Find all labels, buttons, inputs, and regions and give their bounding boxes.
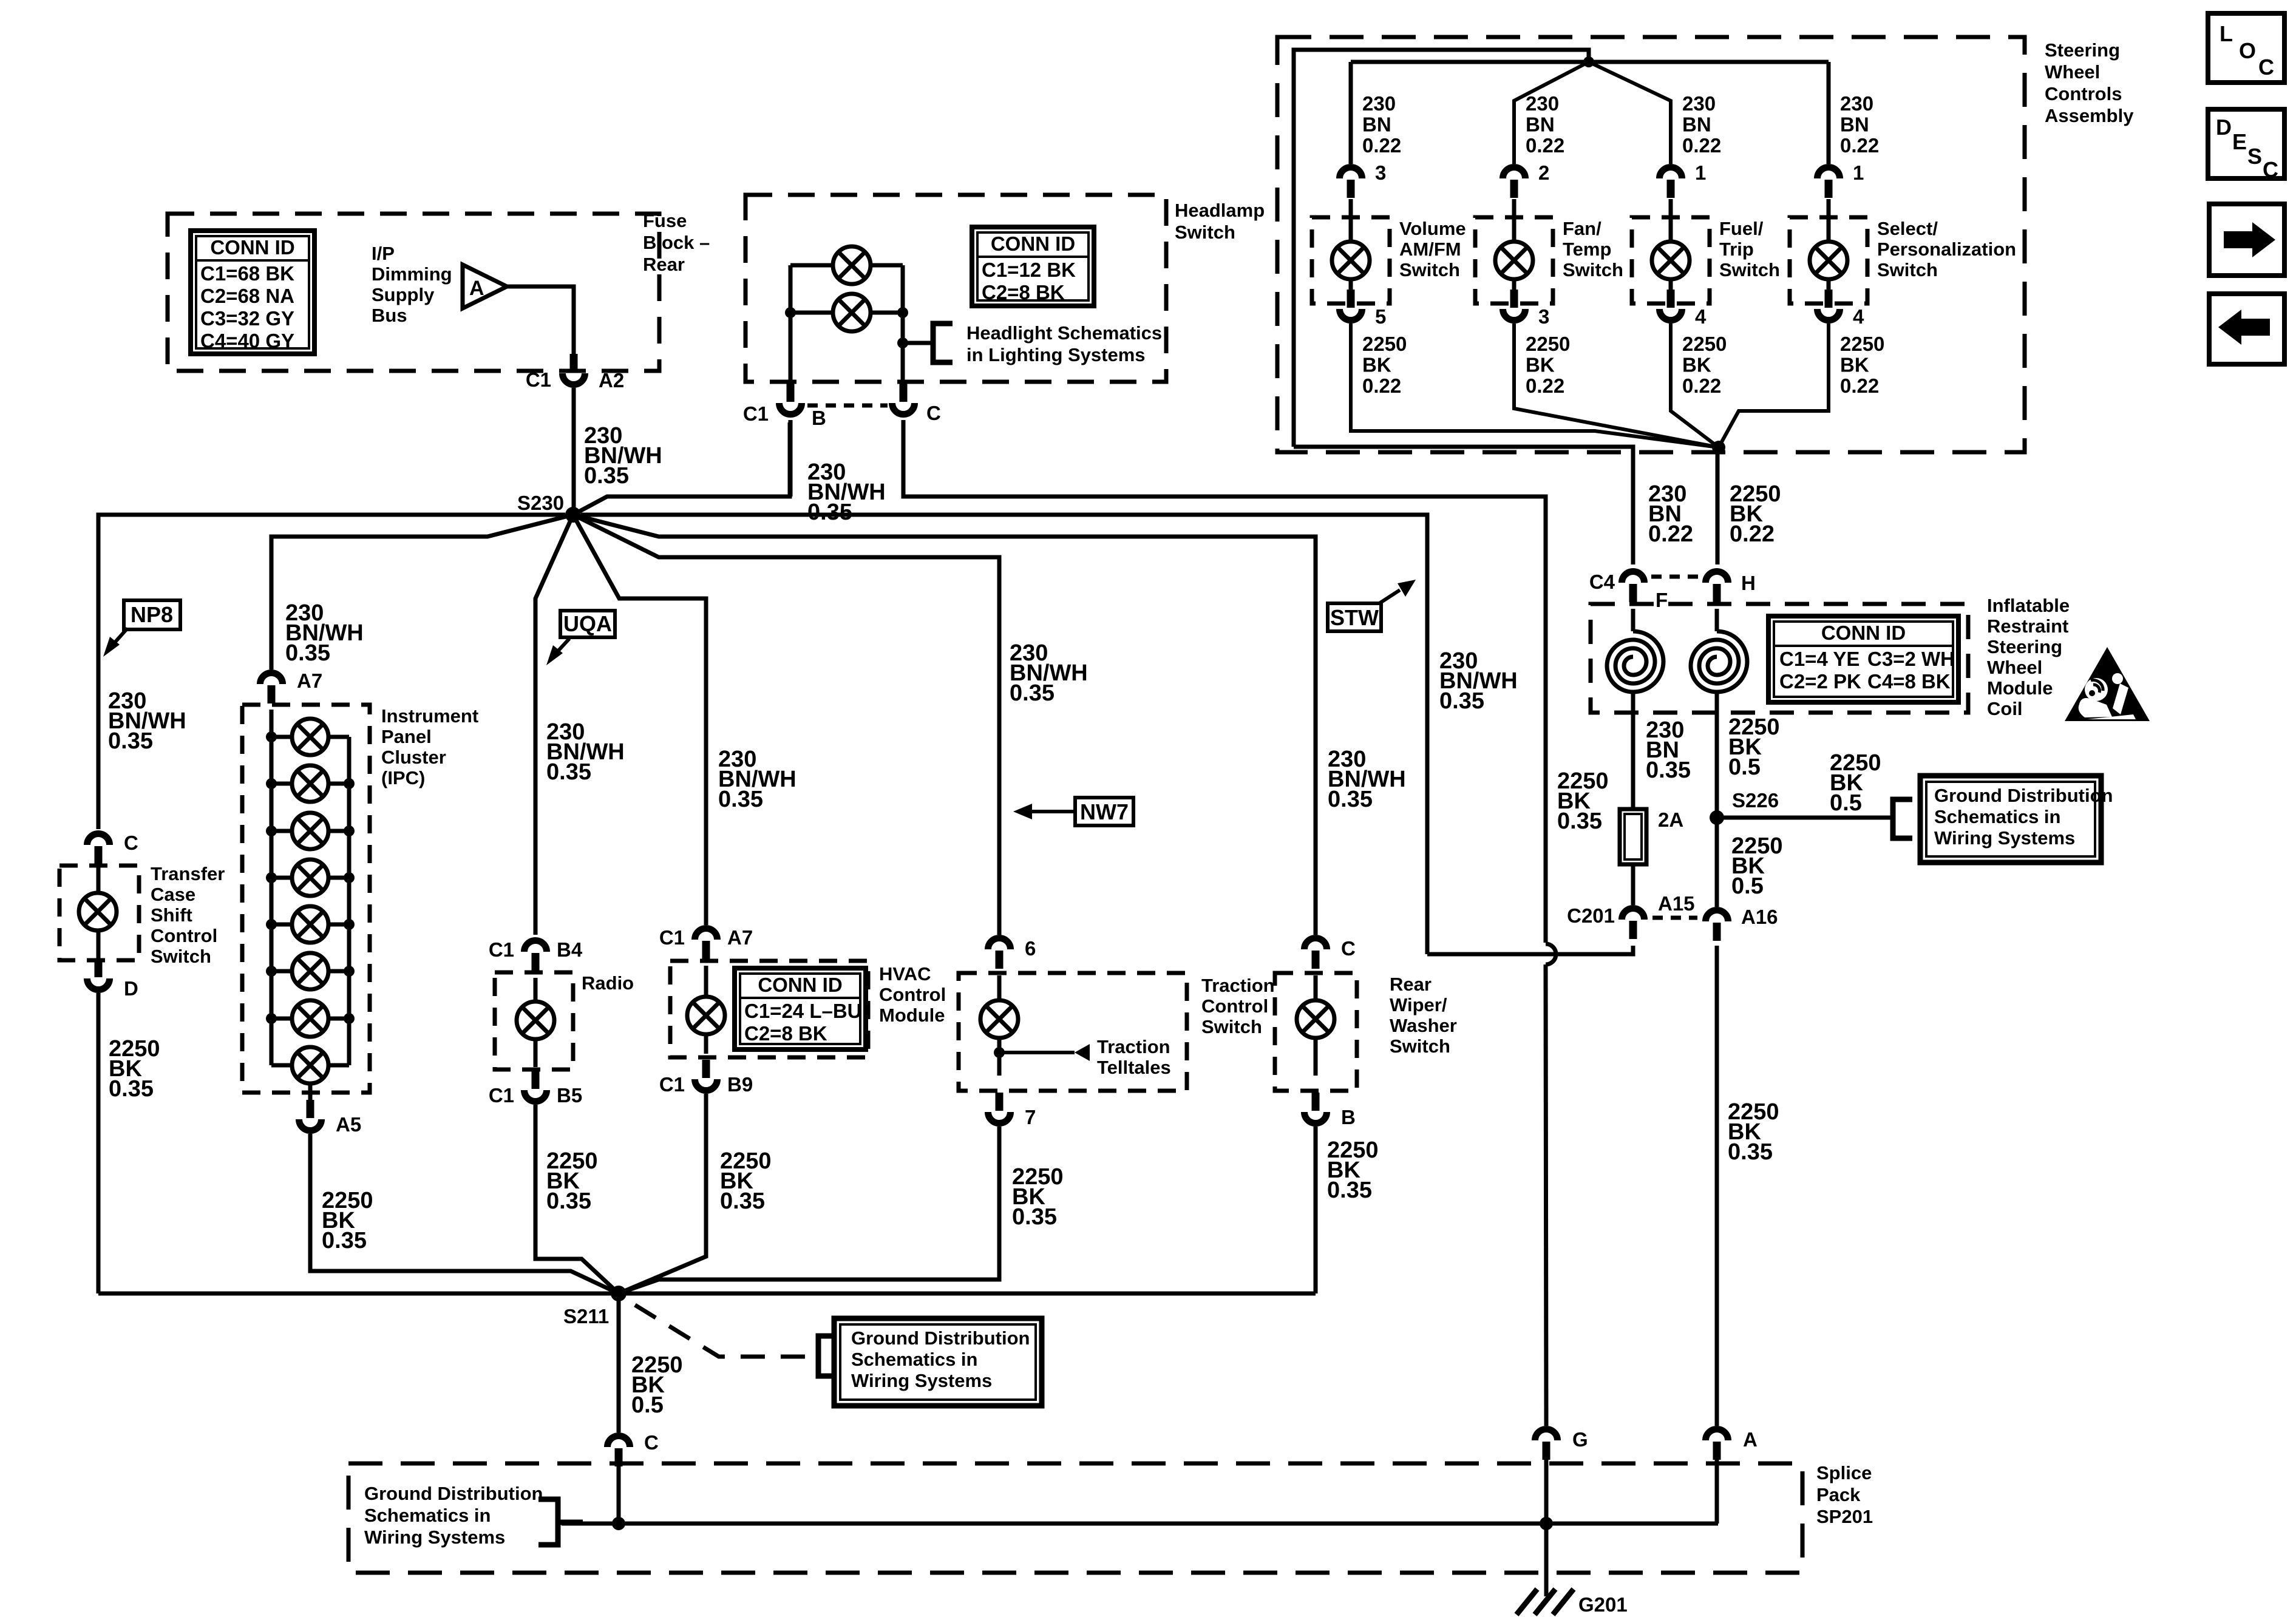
svg-text:Radio: Radio (582, 972, 634, 994)
IPC illumination lamp 4 (292, 859, 328, 896)
ground wire fuel/trip switch to merge node (1671, 324, 1719, 447)
svg-text:Control: Control (879, 984, 946, 1005)
svg-text:Controls: Controls (2045, 83, 2122, 104)
svg-text:F: F (1656, 589, 1668, 611)
connector A (splice pack) (1706, 1429, 1728, 1460)
svg-text:Wiper/: Wiper/ (1390, 994, 1447, 1015)
arrow from NP8 tag to wire (112, 628, 127, 645)
svg-text:Switch: Switch (1175, 222, 1235, 243)
svg-text:Steering: Steering (1987, 636, 2062, 657)
wire S230 left rail to transfer case switch (NP8 circuit) (98, 515, 565, 829)
traction control switch dashed box (959, 973, 1187, 1091)
svg-text:C4: C4 (1589, 571, 1615, 593)
svg-text:C1: C1 (743, 402, 769, 425)
reference bracket (S226 ground distribution) (1893, 799, 1912, 838)
wire A into splice pack to bus (1715, 1460, 1719, 1524)
lamp 2 of headlamp switch (833, 294, 871, 331)
wire S226 to ground distribution reference (1717, 816, 1893, 820)
wire into transfer case lamp (97, 866, 101, 893)
svg-text:Inflatable: Inflatable (1987, 595, 2070, 616)
wire A16 down to splice pack A (2250 BK 0.35) (1715, 946, 1719, 1426)
illumination lamp (Select/ switch) (1810, 242, 1847, 279)
IPC left rail junction dot row 6 (266, 966, 277, 977)
svg-text:G201: G201 (1578, 1593, 1628, 1616)
svg-text:4: 4 (1695, 305, 1707, 328)
svg-text:C: C (2258, 55, 2274, 80)
illumination lamp (radio) (517, 1002, 554, 1039)
buffer/driver triangle A (I/P dimming supply) (463, 265, 507, 308)
ground wire exits assembly to coil H wire (1716, 447, 1720, 564)
svg-text:C4=8 BK: C4=8 BK (1867, 670, 1951, 693)
IPC left rail junction dot row 3 (266, 825, 277, 836)
svg-text:Telltales: Telltales (1097, 1057, 1171, 1078)
svg-text:0.35: 0.35 (109, 1076, 154, 1102)
svg-text:C: C (124, 832, 138, 854)
wire S230 down-right to HVAC control module (573, 515, 706, 925)
svg-text:0.22: 0.22 (1526, 134, 1564, 157)
IPC right rail junction dot row 6 (344, 966, 355, 977)
svg-text:I/P: I/P (372, 243, 395, 264)
svg-text:0.5: 0.5 (631, 1392, 664, 1418)
IPC left rail junction dot row 5 (266, 919, 277, 930)
svg-text:0.35: 0.35 (1327, 1178, 1372, 1203)
connector C201/A15 (1622, 909, 1645, 940)
svg-text:BN: BN (1362, 114, 1391, 136)
feed branch to volume switch (1349, 62, 1353, 164)
wire bottom row through lamp 2 (790, 311, 903, 315)
IPC illumination lamp 7 (292, 1000, 328, 1037)
DESC navigation icon box (2208, 109, 2284, 178)
svg-text:Supply: Supply (372, 284, 435, 305)
connector C (splice pack) (608, 1436, 630, 1467)
svg-text:CONN ID: CONN ID (210, 236, 294, 259)
svg-text:Switch: Switch (1719, 259, 1780, 280)
connector C1/A2 at fuse block output (563, 354, 585, 385)
wire from triangle A to fuse block output A2 (507, 286, 574, 354)
svg-text:C3=32 GY: C3=32 GY (200, 307, 294, 330)
dashed switch box (Select/ Personalization Switch) (1790, 217, 1867, 303)
connector pin 3 (Volume switch top) (1340, 168, 1362, 198)
wire IPC A5 to S211 (2250 BK 0.35) (310, 1134, 619, 1293)
svg-text:3: 3 (1538, 305, 1549, 328)
wire transfer case D to S211 (2250 BK 0.35) (97, 993, 101, 1293)
svg-text:0.22: 0.22 (1730, 521, 1775, 547)
svg-text:0.35: 0.35 (1557, 808, 1602, 834)
wire traction lamp to pin 7 (997, 1039, 1002, 1076)
svg-text:Instrument: Instrument (381, 705, 478, 727)
svg-text:Schematics in: Schematics in (851, 1349, 977, 1370)
wire headlamp B down to S230 (789, 420, 793, 497)
wire S230 up-right to headlamp switch terminal B (573, 422, 790, 515)
svg-text:O: O (2239, 38, 2256, 63)
IPC right rail junction dot row 5 (344, 919, 355, 930)
svg-text:0.35: 0.35 (546, 759, 591, 785)
svg-text:Ground Distribution: Ground Distribution (1934, 785, 2113, 806)
wire G into splice pack (1544, 1460, 1549, 1524)
illumination lamp (rear wiper/washer switch) (1297, 1000, 1334, 1038)
svg-text:E: E (2232, 129, 2247, 154)
IPC illumination lamp 2 (292, 765, 328, 802)
svg-text:1: 1 (1695, 161, 1706, 184)
connector H (coil ground) (1706, 572, 1728, 603)
feed wire left rail inside assembly (1294, 50, 1589, 447)
svg-text:0.35: 0.35 (1010, 680, 1055, 706)
wire through Fan/ switch (1512, 199, 1517, 242)
arrow to traction telltales (1075, 1044, 1090, 1061)
svg-text:Case: Case (151, 884, 195, 905)
feed branch diagonal to fuel/trip switch (1589, 62, 1671, 164)
svg-text:B9: B9 (727, 1073, 753, 1096)
svg-text:UQA: UQA (563, 611, 612, 636)
svg-text:Shift: Shift (151, 904, 192, 926)
svg-text:AM/FM: AM/FM (1399, 239, 1461, 260)
svg-text:Ground Distribution: Ground Distribution (364, 1483, 543, 1504)
svg-text:0.35: 0.35 (1012, 1204, 1057, 1230)
splice pack SP201 dashed box (348, 1463, 1802, 1573)
svg-text:BK: BK (1682, 354, 1711, 376)
wire IPC lamp 8 to connector A5 (308, 1083, 313, 1100)
svg-text:SP201: SP201 (1816, 1506, 1873, 1527)
svg-text:5: 5 (1375, 305, 1386, 328)
svg-text:0.5: 0.5 (1731, 873, 1764, 899)
connector pin 6 (traction control switch) (988, 938, 1011, 969)
svg-text:7: 7 (1025, 1106, 1036, 1128)
svg-text:0.22: 0.22 (1840, 375, 1879, 397)
wire lamp to connector D (97, 931, 101, 959)
svg-text:H: H (1741, 572, 1756, 594)
svg-text:BN: BN (1840, 114, 1869, 136)
svg-text:CONN ID: CONN ID (1821, 622, 1906, 644)
svg-text:C1: C1 (489, 938, 514, 961)
svg-text:A2: A2 (599, 369, 624, 392)
IPC illumination lamp 6 (292, 953, 328, 989)
coil spiral H side (1691, 631, 1747, 692)
IPC illumination lamp 5 (292, 906, 328, 943)
svg-text:(IPC): (IPC) (381, 767, 425, 788)
svg-text:0.35: 0.35 (322, 1228, 367, 1253)
svg-text:230: 230 (1362, 92, 1396, 115)
reference bracket (splice pack internal) (538, 1499, 558, 1545)
dashed switch box (Volume AM/FM Switch) (1312, 217, 1390, 303)
IPC lamp row 4 wire (271, 876, 349, 880)
svg-text:0.22: 0.22 (1362, 134, 1401, 157)
svg-text:Switch: Switch (1201, 1016, 1262, 1037)
svg-text:NP8: NP8 (131, 602, 173, 627)
svg-text:S230: S230 (517, 492, 564, 514)
wire to traction telltales arrow (999, 1051, 1075, 1054)
connector C1/B headlamp switch (779, 384, 802, 415)
svg-text:0.22: 0.22 (1362, 375, 1401, 397)
svg-text:C2=8 BK: C2=8 BK (744, 1022, 827, 1045)
svg-text:Schematics in: Schematics in (364, 1505, 491, 1526)
svg-text:C2=68 NA: C2=68 NA (200, 285, 294, 307)
svg-text:C: C (926, 402, 941, 424)
splice node S226 (1710, 810, 1724, 825)
IPC lamp row 3 wire (271, 829, 349, 833)
svg-text:Restraint: Restraint (1987, 615, 2068, 637)
svg-text:CONN ID: CONN ID (991, 232, 1075, 255)
svg-text:A: A (469, 277, 484, 300)
svg-text:C1=24 L–BU: C1=24 L–BU (744, 1000, 862, 1022)
svg-text:Steering: Steering (2045, 39, 2120, 61)
coil spiral F side (1607, 631, 1663, 692)
svg-text:G: G (1572, 1428, 1588, 1451)
wire into radio lamp (534, 978, 538, 1001)
svg-text:Trip: Trip (1719, 239, 1754, 260)
svg-text:CONN ID: CONN ID (758, 974, 842, 996)
connector C4/F (coil feed) (1622, 572, 1645, 603)
svg-text:Panel: Panel (381, 726, 432, 747)
splice node S230 (565, 507, 581, 523)
instrument panel cluster dashed box (242, 705, 370, 1093)
wire headlamp ground run continues to splice pack G (1546, 964, 1546, 1426)
branch wire to headlight schematics reference (903, 341, 933, 345)
svg-text:0.22: 0.22 (1840, 134, 1879, 157)
left rail of headlamp switch (789, 265, 793, 382)
svg-text:Module: Module (879, 1005, 945, 1026)
fuse block rear dashed enclosure box (168, 214, 659, 371)
wire through Fuel/ switch (1669, 199, 1673, 242)
illumination lamp (Fuel/ switch) (1652, 242, 1690, 279)
arrow from NW7 tag to wire (1029, 810, 1075, 813)
svg-text:C1=4 YE: C1=4 YE (1779, 648, 1860, 670)
svg-text:0.22: 0.22 (1682, 134, 1721, 157)
svg-text:0.22: 0.22 (1526, 375, 1564, 397)
right rail of headlamp switch (901, 265, 905, 382)
IPC left rail junction dot row 1 (266, 731, 277, 742)
illumination lamp (Fan/ switch) (1495, 242, 1533, 279)
IPC right rail junction dot row 2 (344, 778, 355, 789)
svg-text:Washer: Washer (1390, 1015, 1457, 1036)
svg-text:Coil: Coil (1987, 698, 2023, 719)
LOC navigation icon box (2208, 13, 2284, 83)
svg-text:BN: BN (1526, 114, 1555, 136)
IPC illumination lamp 3 (292, 813, 328, 849)
svg-text:D: D (2216, 115, 2232, 140)
svg-text:Traction: Traction (1201, 975, 1275, 996)
connector C (transfer case switch) (87, 834, 110, 864)
ground wire select switch to merge node (1719, 324, 1829, 447)
svg-text:B5: B5 (557, 1084, 582, 1107)
junction dot G wire on bus (1540, 1517, 1553, 1530)
wire coil H to splice S226 (2250 BK 0.5) (1715, 692, 1719, 811)
IPC left feed rail (270, 710, 274, 1065)
IPC lamp row 2 wire (271, 782, 349, 786)
svg-text:A7: A7 (297, 670, 322, 692)
svg-text:0.35: 0.35 (720, 1188, 765, 1214)
circuit tag box NW7 (1075, 798, 1133, 825)
svg-text:C2=2 PK: C2=2 PK (1779, 670, 1861, 693)
svg-text:C1: C1 (659, 926, 685, 949)
svg-text:Control: Control (151, 925, 217, 946)
svg-text:0.35: 0.35 (1728, 1139, 1773, 1165)
svg-text:S: S (2247, 144, 2262, 169)
svg-text:Switch: Switch (1563, 259, 1623, 280)
svg-text:Rear: Rear (1390, 974, 1432, 995)
svg-text:0.35: 0.35 (807, 500, 852, 525)
svg-text:Wiring Systems: Wiring Systems (851, 1370, 992, 1391)
ground symbol G201 (1517, 1589, 1537, 1615)
svg-text:Switch: Switch (1390, 1036, 1450, 1057)
inflatable restraint coil dashed box (1591, 604, 1968, 713)
lamp 1 of headlamp switch (833, 246, 871, 284)
ground wire fan/temp switch to merge node (1514, 324, 1719, 447)
svg-text:0.35: 0.35 (1439, 688, 1484, 714)
wire radio lamp to B5 (534, 1040, 538, 1067)
connector G (splice pack) (1535, 1429, 1558, 1460)
wire top row through lamp 1 (790, 263, 903, 268)
svg-text:Wiring Systems: Wiring Systems (364, 1527, 505, 1548)
svg-text:BK: BK (1840, 354, 1869, 376)
illumination lamp (HVAC control module) (687, 997, 725, 1034)
IPC left rail junction dot row 7 (266, 1013, 277, 1024)
svg-text:Wiring Systems: Wiring Systems (1934, 827, 2075, 849)
svg-text:Wheel: Wheel (2045, 61, 2100, 83)
svg-text:0.35: 0.35 (1646, 758, 1691, 783)
svg-text:in Lighting Systems: in Lighting Systems (966, 344, 1146, 365)
feed rail bottom run to coil F wire (1294, 447, 1633, 564)
svg-text:B: B (1341, 1106, 1356, 1128)
IPC lamp row 1 wire (271, 735, 349, 739)
svg-text:0.22: 0.22 (1682, 375, 1721, 397)
svg-text:C1: C1 (526, 368, 551, 391)
ground wire volume switch to merge node (1351, 324, 1719, 447)
wire S230 to rear wiper/washer switch (573, 515, 1316, 935)
svg-text:D: D (124, 977, 138, 1000)
dashed switch box (Fuel/ Trip Switch) (1632, 217, 1710, 303)
svg-text:C1=68 BK: C1=68 BK (200, 262, 294, 285)
steering wheel controls assembly dashed box (1277, 37, 2025, 452)
wire headlamp C to long ground run (903, 420, 1546, 943)
connector ID table for headlamp switch (C1=12 BK C2=8 BK) (972, 227, 1094, 306)
svg-text:230: 230 (1840, 92, 1873, 115)
svg-text:Ground Distribution: Ground Distribution (851, 1327, 1030, 1349)
connector C1/A7 (HVAC) (695, 929, 718, 960)
feed distribution bus (line B) (1351, 60, 1829, 64)
connector pin 4 (Fuel/ switch bottom) (1660, 290, 1682, 320)
connector C1/B9 (HVAC) (695, 1060, 718, 1091)
svg-text:2250: 2250 (1682, 333, 1727, 355)
svg-text:0.35: 0.35 (546, 1188, 591, 1214)
svg-text:Personalization: Personalization (1877, 239, 2016, 260)
svg-text:BK: BK (1526, 354, 1555, 376)
svg-text:BN: BN (1682, 114, 1711, 136)
svg-text:Headlamp: Headlamp (1175, 200, 1265, 221)
svg-text:Fuel/: Fuel/ (1719, 218, 1764, 239)
junction dot right rail branch (897, 337, 908, 348)
wire A15 down and left to steering feed riser (1427, 946, 1633, 954)
IPC lamp row 7 wire (271, 1017, 349, 1021)
IPC lamp row 5 wire (271, 923, 349, 927)
svg-text:Transfer: Transfer (151, 863, 225, 884)
svg-text:2250: 2250 (1840, 333, 1884, 355)
wire H connector into coil (1715, 609, 1719, 631)
svg-text:3: 3 (1375, 161, 1386, 184)
svg-text:C1=12 BK: C1=12 BK (982, 259, 1076, 281)
connector ID table for coil (C1=4 YE C3=2 WH C2=2 PK C4=8 BK) (1768, 616, 1958, 702)
arrow from UQA tag to wire (555, 639, 569, 654)
illumination lamp (traction control switch) (980, 1000, 1018, 1038)
illumination lamp (Volume switch) (1332, 242, 1370, 279)
wire C into splice pack bus (617, 1466, 621, 1524)
svg-text:Bus: Bus (372, 305, 407, 326)
dashed connector line between F and H (1651, 575, 1700, 579)
svg-text:S211: S211 (563, 1305, 609, 1327)
svg-text:Traction: Traction (1097, 1036, 1170, 1057)
svg-text:230: 230 (1526, 92, 1559, 115)
svg-text:Dimming: Dimming (372, 263, 452, 285)
connector A5 (IPC ground) (299, 1100, 322, 1131)
wire S230 to traction control switch (573, 515, 999, 935)
svg-text:0.5: 0.5 (1728, 754, 1761, 780)
svg-text:Switch: Switch (1399, 259, 1460, 280)
headlamp switch dashed box (746, 195, 1166, 382)
svg-text:0.35: 0.35 (718, 787, 763, 812)
wire through Volume switch (1349, 199, 1353, 242)
connector C1/B5 (radio) (525, 1071, 547, 1102)
svg-text:Pack: Pack (1816, 1484, 1861, 1505)
feed branch to select/personalization switch (1827, 62, 1831, 164)
svg-text:C2=8 BK: C2=8 BK (982, 281, 1065, 303)
svg-text:Splice: Splice (1816, 1462, 1872, 1483)
svg-text:0.5: 0.5 (1830, 790, 1862, 816)
svg-text:C: C (644, 1431, 659, 1454)
svg-text:C3=2 WH: C3=2 WH (1867, 648, 1955, 670)
splice pack internal bus (562, 1522, 1718, 1526)
connector ID table for fuse block (C1=68 BK C2=68 NA C3=32 GY C4=40 GY) (191, 231, 314, 354)
wire into traction lamp (997, 975, 1002, 1000)
airbag warning triangle icon (2065, 647, 2150, 721)
connector C201/A16 (1706, 910, 1728, 941)
wire into HVAC lamp (704, 966, 708, 996)
connector A7 (IPC) (260, 673, 283, 704)
connector pin 4 (Select/ switch bottom) (1818, 290, 1840, 320)
radio dashed box (495, 972, 573, 1070)
ground distribution schematics reference box (middle) (834, 1318, 1042, 1406)
svg-text:Control: Control (1201, 995, 1268, 1017)
svg-text:Temp: Temp (1563, 239, 1611, 260)
svg-text:0.35: 0.35 (108, 728, 153, 754)
svg-text:2250: 2250 (1362, 333, 1407, 355)
svg-text:Fuse: Fuse (643, 210, 687, 231)
svg-text:A7: A7 (727, 926, 753, 949)
IPC right rail junction dot row 7 (344, 1013, 355, 1024)
junction dot right rail row2 (897, 307, 908, 318)
dashed reference from S211 to ground distribution box (635, 1305, 813, 1357)
wire radio B5 to S211 (2250 BK 0.35) (535, 1105, 619, 1293)
svg-text:Rear: Rear (643, 254, 685, 275)
svg-text:0.35: 0.35 (285, 640, 330, 666)
svg-text:Volume: Volume (1399, 218, 1466, 239)
svg-text:Headlight Schematics: Headlight Schematics (966, 322, 1162, 344)
splice node S211 (611, 1286, 627, 1301)
wire S230 right to steering wheel coil feed (230 BN/WH) (581, 515, 1427, 954)
connector pin 1 (Fuel/ switch top) (1660, 168, 1682, 198)
svg-text:Switch: Switch (1877, 259, 1938, 280)
svg-text:Select/: Select/ (1877, 218, 1938, 239)
wire into rear wiper lamp (1314, 975, 1318, 1000)
svg-text:2: 2 (1538, 161, 1549, 184)
illumination lamp (transfer case shift control switch) (79, 893, 117, 931)
svg-text:Fan/: Fan/ (1563, 218, 1601, 239)
connector C1/B4 (radio) (525, 941, 547, 972)
svg-text:A15: A15 (1658, 892, 1695, 915)
wire S230 down-left to radio connector B4 (535, 515, 573, 935)
svg-text:Schematics in: Schematics in (1934, 806, 2060, 827)
IPC lamp row 8 wire (271, 1063, 349, 1068)
wire fuse to connector A15 (1631, 864, 1635, 905)
svg-text:Cluster: Cluster (381, 747, 446, 768)
